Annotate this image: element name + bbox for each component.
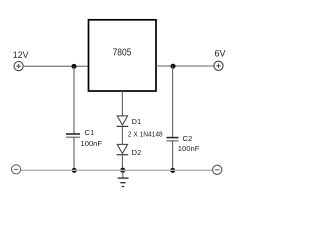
capacitor C1 [66, 134, 80, 137]
svg-text:C1: C1 [85, 128, 95, 137]
terminal +6V output [214, 61, 223, 70]
label D1 [132, 117, 142, 126]
node C1 ground junction [72, 168, 77, 173]
regulator U1 box [89, 20, 157, 91]
svg-text:D1: D1 [132, 117, 142, 126]
wire input terminal to regulator [23, 65, 88, 67]
value label 100nF (C2) [178, 144, 200, 153]
terminal -12V return [12, 165, 21, 174]
wire ground rail [21, 169, 213, 171]
svg-text:6V: 6V [215, 49, 226, 59]
label 7805 [113, 48, 132, 59]
terminal -6V return [213, 165, 222, 174]
ground [118, 170, 129, 186]
label C2 [183, 134, 193, 143]
svg-text:100nF: 100nF [178, 144, 200, 153]
label C1 [85, 128, 95, 137]
svg-text:C2: C2 [183, 134, 193, 143]
node C2 ground junction [170, 168, 175, 173]
label D2 [132, 148, 142, 157]
terminal +12V input [14, 62, 23, 71]
wire D2 to ground rail [121, 155, 123, 171]
node ground junction [120, 168, 125, 173]
node output junction [171, 64, 176, 69]
wire regulator output to terminal [156, 65, 214, 67]
svg-text:7805: 7805 [113, 48, 132, 59]
diode D1 [117, 116, 129, 127]
node input junction [72, 64, 77, 69]
wire C1 to ground rail [73, 137, 75, 170]
label 6V [215, 49, 226, 59]
value label 100nF (C1) [81, 139, 103, 148]
wire junction down to C1 [73, 66, 75, 133]
svg-text:100nF: 100nF [81, 139, 103, 148]
svg-text:D2: D2 [132, 148, 142, 157]
wire D1 to D2 [121, 127, 123, 145]
diode D2 [117, 144, 129, 154]
wire regulator ground pin down to D1 [121, 91, 123, 116]
label 12V [13, 50, 29, 60]
svg-text:2 X 1N4148: 2 X 1N4148 [128, 130, 163, 139]
wire C2 to ground rail [172, 141, 174, 171]
svg-text:12V: 12V [13, 50, 29, 60]
wire junction down to C2 [172, 66, 174, 137]
capacitor C2 [167, 138, 179, 141]
value label 2 X 1N4148 [128, 130, 163, 139]
